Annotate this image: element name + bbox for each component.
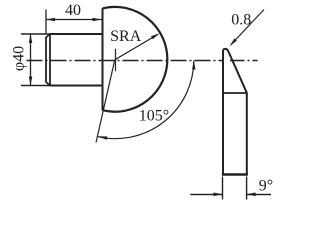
arrow phi40 bottom (29, 77, 33, 86)
dimension 40 extension line (45, 10, 47, 35)
center mark (sphere center vertical tick) (115, 49, 117, 71)
centerline left segment (horizontal axis, dash-dot) (27, 60, 223, 62)
tool outline (left edge, nose radius, rake face slant, right edge) (223, 49, 247, 175)
svg-text:105°: 105° (139, 108, 169, 125)
dimension phi40 extension line bottom (21, 85, 50, 87)
workpiece shaft top edge (50, 33, 103, 35)
arrow 105 at ray (98, 136, 107, 140)
dimension phi40 line (30, 34, 32, 86)
leader 0.8 (231, 10, 264, 45)
angle ray 105 degrees (96, 60, 115, 143)
arrow 40 left (46, 18, 55, 22)
arrow 105 at centerline (192, 61, 196, 70)
dimension 9 extension line left (222, 177, 224, 200)
dimension arc 105 degrees (98, 61, 194, 139)
arrow 9 right (247, 193, 256, 197)
arrow 0.8 (230, 38, 237, 46)
arrow 9 left (214, 193, 223, 197)
svg-text:SRA: SRA (110, 28, 142, 45)
svg-text:0.8: 0.8 (231, 12, 251, 29)
tool bottom edge (222, 173, 248, 176)
arrow 40 right (93, 18, 102, 22)
SRA leader line (115, 35, 158, 60)
svg-text:9°: 9° (259, 178, 273, 195)
dimension 9 extension line right (246, 177, 248, 200)
svg-text:φ40: φ40 (11, 46, 28, 71)
dimension 9 line right part (247, 194, 271, 196)
tool face edge (223, 92, 247, 94)
workpiece head left face (102, 8, 104, 110)
centerline right segment (dash-dot) (230, 60, 258, 62)
workpiece shaft chamfer edge (49, 33, 51, 86)
arrow phi40 top (29, 34, 33, 43)
svg-text:40: 40 (65, 2, 81, 19)
workpiece shaft end face with chamfers (46, 34, 50, 86)
workpiece head spherical arc (103, 7, 168, 112)
arrow SRA (151, 33, 160, 39)
dimension 40 line (46, 19, 102, 21)
dimension 9 line left part (190, 194, 222, 196)
workpiece shaft bottom edge (50, 85, 103, 87)
dimension phi40 extension line top (21, 33, 50, 35)
